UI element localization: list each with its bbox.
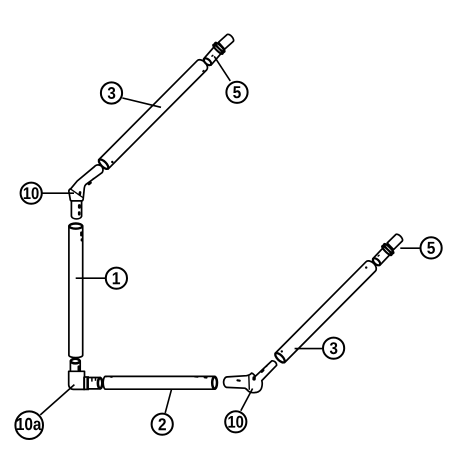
leader line to 2 [165, 389, 171, 413]
elbow 10 br dark marks [252, 376, 256, 381]
leader line to 5 (right) [400, 247, 419, 249]
leader line to 3 (top) [122, 98, 161, 107]
tube 2 tick marks near left end [105, 376, 107, 378]
tip 5 right end cap [387, 233, 404, 250]
elbow 10 br crease [248, 375, 251, 390]
tip 5 top ferrule [202, 46, 222, 67]
tube 3 top tick near upper end [202, 70, 205, 73]
elbow 10 left dark marks [87, 181, 92, 186]
label 10a (bottom left elbow) [15, 411, 43, 439]
leader line to 3 (right) [295, 348, 323, 350]
tip 5 top end cap [219, 33, 235, 49]
label 10 (left elbow) [21, 183, 42, 204]
tube 2 (bottom horizontal tube) [103, 376, 217, 389]
elbow connector 10 (left): vertical socket [71, 196, 81, 219]
tube 2 dark marks near right end [194, 376, 199, 378]
label 2 (bottom tube) [152, 414, 173, 435]
elbow connector 10 (bottom right): silhouette [224, 361, 277, 393]
elbow 10 left knuckle and angled socket silhouette [69, 165, 103, 201]
label 3 (top tube) [101, 82, 122, 103]
elbow 10a horizontal stub [84, 378, 102, 389]
tip 5 top collar ring [212, 42, 225, 55]
tube 1 dark marks near top [80, 231, 83, 236]
leader line to 10 (bottom) [241, 389, 253, 411]
leader line to 5 (top) [214, 56, 230, 81]
tip 5 right collar ring [381, 243, 394, 256]
tube 3 top dot mark near mouth [111, 161, 113, 163]
elbow 10a dark mark on stub [78, 365, 81, 371]
tip 5 right tick near mouth [377, 254, 380, 257]
tube 3 (top long tube) [97, 58, 210, 171]
elbow 10a tick marks on stub [91, 378, 93, 382]
tip 5 top tick near mouth [211, 54, 214, 57]
label 3 (right tube) [323, 338, 344, 359]
tube 1 (vertical tube) [69, 224, 83, 358]
elbow 10a collar band [84, 377, 88, 389]
label 10 (bottom right elbow) [225, 411, 246, 432]
leader line to 1 [76, 277, 105, 279]
tube 3 (right long tube) [273, 259, 378, 365]
elbow 10a vertical stub [70, 359, 80, 374]
label 5 (top tip) [226, 82, 247, 103]
tip 5 right ferrule [371, 247, 390, 267]
label 5 (right tip) [421, 237, 442, 258]
elbow 10a body [69, 371, 85, 389]
leader line to 10 (left) [42, 192, 74, 194]
tube 3 right dot marks [281, 350, 283, 352]
label 1 (vertical tube) [106, 268, 127, 289]
leader line to 10a [40, 385, 74, 415]
elbow 10 left crease [71, 189, 84, 198]
